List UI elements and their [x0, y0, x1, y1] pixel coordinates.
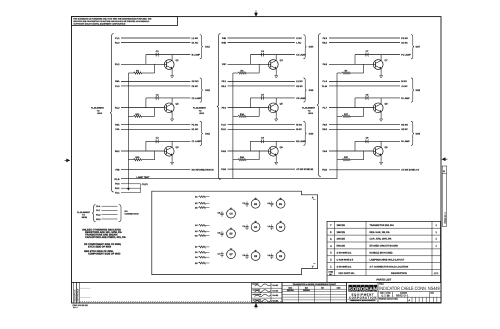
- ground: [171, 160, 173, 162]
- wire resistor to base: [363, 64, 365, 73]
- brace group DS2: [200, 78, 203, 102]
- svg-text:158C2N: 158C2N: [337, 224, 346, 227]
- wire lamp N LAMP: [355, 140, 400, 142]
- resistor R14: [233, 115, 238, 117]
- svg-text:NO.: NO.: [329, 273, 333, 276]
- svg-text:TO: TO: [82, 214, 85, 217]
- svg-text:R6A: R6A: [115, 80, 120, 83]
- wire lamp P1 LAMP: [355, 54, 400, 56]
- ground: [380, 73, 382, 75]
- svg-text:DRG 100-1M 4M: DRG 100-1M 4M: [73, 304, 88, 307]
- svg-text:J1 NC: J1 NC: [401, 85, 408, 88]
- svg-text:A-09-4945-2-1: A-09-4945-2-1: [337, 252, 353, 255]
- wire base feed: [354, 98, 356, 108]
- svg-text:5-4-61: 5-4-61: [273, 284, 280, 287]
- margin block left: [73, 282, 76, 303]
- indicator lamp DS6 (E6): [276, 223, 285, 232]
- svg-text:R1.B: R1.B: [115, 178, 120, 181]
- wire base feed: [249, 55, 251, 65]
- indicator lamp DS3 (B1): [276, 199, 285, 208]
- wire lamp C4 LAMP: [250, 97, 295, 99]
- svg-text:2N1304: 2N1304: [303, 289, 311, 292]
- wire resistor to base: [258, 64, 260, 73]
- wire collector: [380, 98, 382, 104]
- svg-text:C1 LAMP: C1 LAMP: [192, 140, 202, 143]
- connector brace column 3: [317, 34, 321, 177]
- capacitor C6: [260, 140, 262, 144]
- wire emitter: [171, 69, 173, 74]
- wire FL.M to J1 NC: [329, 85, 400, 87]
- transistor Q2: [164, 103, 174, 113]
- brace group DS6: [303, 121, 306, 145]
- wire lamp C3 LAMP: [250, 54, 295, 56]
- svg-text:C2,F1: C2,F1: [142, 183, 149, 186]
- capacitor C7: [221, 252, 223, 254]
- svg-text:FL.8: FL.8: [323, 80, 328, 83]
- wire R8.3 to S1 NC: [329, 42, 400, 44]
- svg-text:S2 NC: S2 NC: [401, 128, 408, 131]
- svg-text:F8.1: F8.1: [222, 80, 227, 83]
- wire F1.H to M NO: [228, 124, 295, 126]
- resistor R13: [128, 115, 133, 117]
- leader line: [80, 297, 91, 299]
- wire emitter: [380, 112, 382, 117]
- wire resistor to base: [258, 151, 260, 160]
- wire F4B to K NO: [228, 37, 295, 39]
- svg-text:R8.2: R8.2: [115, 150, 120, 153]
- bus wire column 1: [127, 73, 129, 184]
- svg-text:B NO: B NO: [401, 80, 407, 83]
- capacitor C6: [246, 254, 248, 256]
- title block: [347, 282, 441, 302]
- svg-text:WIRE: WIRE: [82, 216, 88, 219]
- svg-text:C-A09-4945-2-5: C-A09-4945-2-5: [337, 258, 354, 261]
- wire F1.0 to F2 NC: [121, 85, 190, 87]
- svg-text:5-4-61: 5-4-61: [273, 290, 280, 293]
- svg-text:DESCRIPTION: DESCRIPTION: [391, 272, 407, 275]
- svg-text:F1.7: F1.7: [323, 107, 328, 110]
- resistor R3: [128, 72, 133, 74]
- svg-text:F1.0: F1.0: [115, 85, 120, 88]
- wire collector: [171, 141, 173, 147]
- svg-text:ETCHED CIRCUIT BOARD: ETCHED CIRCUIT BOARD: [370, 245, 399, 248]
- bus wire column 3: [336, 73, 338, 178]
- svg-text:F4B: F4B: [222, 37, 227, 40]
- notice box: [72, 17, 178, 26]
- connector brace no-connection: [92, 205, 95, 222]
- capacitor C2: [155, 96, 157, 100]
- svg-text:F1.H: F1.H: [221, 124, 226, 127]
- svg-text:V: V: [312, 265, 314, 268]
- svg-text:P1 LAMP: P1 LAMP: [401, 54, 411, 57]
- capacitor L4: [271, 225, 273, 227]
- svg-text:TO: TO: [199, 109, 202, 112]
- svg-text:5-4-61: 5-4-61: [273, 294, 280, 297]
- svg-text:AT SW ZONE B2: AT SW ZONE B2: [296, 168, 314, 171]
- svg-text:F2.1: F2.1: [115, 192, 120, 195]
- ground: [171, 73, 173, 75]
- wire collector: [380, 55, 382, 61]
- svg-text:DS8: DS8: [416, 89, 421, 92]
- svg-text:R1.2: R1.2: [115, 63, 120, 66]
- indicator lamp DS9 (E9): [276, 252, 285, 261]
- transistor Q5: [268, 103, 278, 113]
- svg-text:A-09-4945-2-1: A-09-4945-2-1: [337, 265, 353, 268]
- svg-text:M NO: M NO: [296, 124, 302, 127]
- svg-text:S1 NC: S1 NC: [401, 42, 408, 45]
- centering mark bottom: [255, 304, 258, 309]
- svg-text:AT SW ZONE A-5: AT SW ZONE A-5: [401, 169, 419, 172]
- svg-text:K NO: K NO: [296, 37, 302, 40]
- svg-text:F2 NC: F2 NC: [192, 85, 199, 88]
- wire R1B lamp test: [121, 177, 337, 179]
- ground: [275, 160, 277, 162]
- transistor Q9: [373, 146, 383, 156]
- wire emitter: [275, 155, 277, 160]
- capacitor C5: [260, 96, 262, 100]
- capacitor C9: [365, 140, 367, 144]
- wire lamp C2 LAMP: [146, 97, 190, 99]
- wire resistor to base: [363, 151, 365, 160]
- centering mark right: [442, 158, 447, 161]
- svg-text:L2 NO: L2 NO: [296, 80, 303, 83]
- size code number row: [384, 292, 386, 298]
- svg-text:F2.B: F2.B: [221, 168, 226, 171]
- svg-text:R1.2: R1.2: [115, 107, 120, 110]
- transistor Q7: [373, 60, 383, 70]
- svg-text:DS5: DS5: [309, 89, 314, 92]
- capacitor C8: [221, 211, 223, 213]
- wire R6A to G2 NO: [121, 80, 190, 82]
- svg-text:R4.1: R4.1: [115, 187, 120, 190]
- svg-text:F8.B: F8.B: [221, 150, 226, 153]
- wire base feed: [249, 141, 251, 151]
- wire F4A to H1 NC: [121, 128, 190, 130]
- wire collector: [171, 98, 173, 104]
- wire base feed: [354, 141, 356, 151]
- svg-text:P2 NO: P2 NO: [401, 37, 408, 40]
- svg-text:F8.3: F8.3: [323, 37, 328, 40]
- capacitor C8: [365, 96, 367, 100]
- svg-text:2N1304: 2N1304: [287, 289, 295, 292]
- wire base feed: [145, 55, 147, 65]
- resistor R17: [337, 115, 342, 117]
- transistor Q6: [268, 146, 278, 156]
- resistor R24: [233, 159, 238, 161]
- svg-text:RES. 5.6K, 1W, 5%: RES. 5.6K, 1W, 5%: [370, 231, 390, 234]
- svg-text:LAMP TEST: LAMP TEST: [137, 176, 151, 179]
- wire collector: [171, 55, 173, 61]
- capacitor C4: [246, 225, 248, 227]
- svg-text:MICROFILM: MICROFILM: [73, 289, 76, 301]
- svg-text:R1.H: R1.H: [221, 128, 226, 131]
- wire FL.8 to B NO: [329, 80, 400, 82]
- capacitor L6: [271, 254, 273, 256]
- wire lamp R LAMP: [355, 97, 400, 99]
- centering mark left: [65, 159, 70, 162]
- svg-text:C O R P O R A T I O N: C O R P O R A T I O N: [349, 296, 376, 299]
- svg-text:NO: NO: [125, 210, 129, 213]
- svg-text:F4A: F4A: [115, 128, 120, 131]
- wire collector: [275, 141, 277, 147]
- wire emitter: [380, 69, 382, 74]
- brace group DS8: [411, 78, 414, 102]
- svg-text:CEC: CEC: [337, 287, 342, 290]
- svg-text:TO: TO: [308, 109, 311, 112]
- svg-text:TRANSISTOR & DIODE CONVERSI: TRANSISTOR & DIODE CONVERSION CHART: [293, 283, 337, 286]
- svg-text:CONNECTION: CONNECTION: [125, 213, 139, 216]
- bottom strip rule: [72, 281, 442, 283]
- margin drawing number box: [442, 166, 446, 226]
- wire R1.H to M NC: [228, 128, 295, 130]
- brace group DS4: [303, 35, 306, 59]
- svg-text:F8F: F8F: [222, 63, 227, 66]
- wire resistor to base: [363, 108, 365, 117]
- svg-text:F1 NO: F1 NO: [192, 124, 199, 127]
- svg-text:DS3: DS3: [205, 132, 210, 135]
- svg-text:C: C: [382, 294, 384, 297]
- svg-text:C3 LAMP: C3 LAMP: [296, 54, 306, 57]
- wire lamp B1 LAMP: [250, 140, 295, 142]
- perforation ticks: [80, 301, 284, 303]
- svg-text:D1 NC: D1 NC: [192, 42, 199, 45]
- wire emitter: [171, 112, 173, 117]
- wire base feed: [249, 98, 251, 108]
- svg-text:FL.ELEMENT: FL.ELEMENT: [91, 107, 105, 110]
- parts list table: [327, 221, 441, 282]
- svg-text:A: A: [312, 197, 314, 200]
- svg-text:DS7: DS7: [416, 46, 421, 49]
- brace group DS5: [303, 78, 306, 102]
- svg-text:F5.B: F5.B: [322, 169, 327, 172]
- wire F5B no-information: [121, 169, 190, 171]
- svg-text:F8.6: F8.6: [323, 150, 328, 153]
- svg-text:R8.1: R8.1: [221, 85, 226, 88]
- wire F1.1 to L1 NO: [121, 37, 190, 39]
- wire R4A to F1 NO: [121, 124, 190, 126]
- svg-text:COMPONENT SIDE OF #553: COMPONENT SIDE OF #553: [88, 253, 121, 256]
- wire emitter: [171, 155, 173, 160]
- svg-text:R LAMP: R LAMP: [401, 97, 410, 100]
- svg-text:TRANSISTOR 2N1 304: TRANSISTOR 2N1 304: [370, 224, 395, 227]
- capacitor C3: [155, 140, 157, 144]
- wire collector: [275, 98, 277, 104]
- wire emitter: [275, 69, 277, 74]
- svg-text:CEC: CEC: [288, 287, 293, 290]
- wire R4B to L NC: [228, 42, 295, 44]
- capacitor C1: [155, 53, 157, 57]
- svg-text:CEC PART NO.: CEC PART NO.: [339, 272, 356, 275]
- approvals block: [252, 282, 282, 302]
- svg-text:QTY.: QTY.: [434, 272, 439, 275]
- transistor Q1: [164, 60, 174, 70]
- svg-text:100C2N: 100C2N: [337, 238, 346, 241]
- connector brace column 2: [217, 34, 221, 180]
- brace group DS3: [200, 121, 203, 145]
- capacitor C7: [365, 53, 367, 57]
- capacitor A2: [271, 201, 273, 203]
- svg-text:INDICATOR CABLE CONN. NS449: INDICATOR CABLE CONN. NS449: [379, 286, 440, 292]
- svg-text:FL.ELEMENT: FL.ELEMENT: [77, 211, 91, 214]
- svg-text:M NC: M NC: [296, 128, 302, 131]
- svg-text:F5.8: F5.8: [115, 183, 120, 186]
- svg-text:F8.0: F8.0: [222, 107, 227, 110]
- capacitor C5: [221, 231, 223, 233]
- transistor Q8: [373, 103, 383, 113]
- wire collector: [275, 55, 277, 61]
- transistor Q3: [164, 146, 174, 156]
- svg-text:CAPACITORS ARE 27MFD, 50V, 5%: CAPACITORS ARE 27MFD, 50V, 5%: [85, 236, 126, 239]
- wire F2.1 stub: [121, 192, 141, 194]
- svg-text:R1.0: R1.0: [115, 42, 120, 45]
- svg-text:B1 LAMP: B1 LAMP: [296, 140, 306, 143]
- wire resistor to base: [154, 108, 156, 117]
- capacitor C4: [260, 53, 262, 57]
- border frame: [72, 17, 442, 303]
- connector brace column 1: [110, 34, 114, 192]
- ground: [171, 117, 173, 119]
- wire R1.0 to D1 NC: [121, 42, 190, 44]
- svg-text:5-4-61: 5-4-61: [273, 300, 280, 303]
- wire lamp C1 LAMP: [146, 140, 190, 142]
- leader line: [80, 287, 91, 289]
- svg-text:CAP. .47M, 100V, 5%: CAP. .47M, 100V, 5%: [370, 238, 392, 241]
- wire R8.1 to K2 NC: [228, 85, 295, 87]
- wire F5.8 stub: [121, 183, 141, 185]
- svg-text:PARTS LIST: PARTS LIST: [376, 279, 391, 282]
- wire F8.3 to P2 NO: [329, 37, 400, 39]
- ground: [380, 160, 382, 162]
- svg-text:DS9: DS9: [416, 132, 421, 135]
- svg-text:PRINTED CIRCUIT REV.: PRINTED CIRCUIT REV.: [379, 298, 399, 301]
- svg-text:L1 NO: L1 NO: [192, 37, 199, 40]
- svg-text:HANDLE (IN HOUSE): HANDLE (IN HOUSE): [370, 252, 393, 255]
- svg-text:TO: TO: [97, 109, 100, 112]
- svg-text:A-7 CONNECTOR HOLD LOCATION: A-7 CONNECTOR HOLD LOCATION: [370, 265, 409, 268]
- svg-text:FL.ELEMENT: FL.ELEMENT: [193, 107, 207, 110]
- svg-text:DS4: DS4: [309, 46, 314, 49]
- svg-text:FL.ELEMENT: FL.ELEMENT: [302, 107, 316, 110]
- svg-text:N: N: [373, 287, 377, 293]
- svg-text:F5B: F5B: [115, 169, 120, 172]
- svg-text:F1.1: F1.1: [115, 37, 120, 40]
- indicator lamp DS4 (E5): [227, 229, 236, 238]
- arrow to zone C2,F1: [127, 184, 129, 188]
- wire lamp B LAMP: [146, 54, 190, 56]
- wire emitter: [275, 112, 277, 117]
- bus wire column 2: [232, 73, 234, 178]
- svg-text:DS1: DS1: [205, 46, 210, 49]
- svg-text:R2 NO: R2 NO: [401, 124, 408, 127]
- transistor & diode conversion chart: [282, 282, 347, 302]
- centering mark top: [255, 11, 258, 17]
- brace group DS7: [411, 35, 414, 59]
- wire emitter: [380, 155, 382, 160]
- indicator lamp DS2 (B3): [251, 199, 260, 208]
- transistor Q4: [268, 60, 278, 70]
- ground: [275, 117, 277, 119]
- wire base feed: [145, 98, 147, 108]
- svg-text:B LAMP: B LAMP: [192, 54, 201, 57]
- svg-text:G2 NO: G2 NO: [192, 80, 199, 83]
- resistor R27: [337, 159, 342, 161]
- wire resistor to base: [154, 151, 156, 160]
- wire F8.5 to R2 NO: [329, 124, 400, 126]
- svg-text:COPYRIGHT 1961 BY DIGITAL EQUI: COPYRIGHT 1961 BY DIGITAL EQUIPMENT CORP…: [73, 22, 126, 25]
- wire R8.5 to S2 NC: [329, 128, 400, 130]
- svg-text:DS6: DS6: [309, 132, 314, 135]
- wire resistor to base: [154, 64, 156, 73]
- svg-text:LAMP/MACHINE HOLD LAYOUT: LAMP/MACHINE HOLD LAYOUT: [370, 258, 405, 261]
- svg-text:158C2N: 158C2N: [337, 231, 346, 234]
- svg-text:N LAMP: N LAMP: [401, 140, 410, 143]
- svg-text:R4A: R4A: [115, 124, 120, 127]
- SOROBAN logo: [348, 285, 352, 292]
- ground: [380, 117, 382, 119]
- wire base feed: [145, 141, 147, 151]
- capacitor C1: [246, 201, 248, 203]
- svg-text:C2 LAMP: C2 LAMP: [192, 97, 202, 100]
- wire collector: [380, 141, 382, 147]
- svg-text:REFERENCE: REFERENCE: [77, 288, 80, 301]
- brace group DS9: [411, 121, 414, 145]
- resistor R4: [233, 72, 238, 74]
- svg-text:NO INFORMATION BI: NO INFORMATION BI: [192, 169, 214, 172]
- wire F5.B zone: [329, 169, 400, 171]
- indicator lamp DS1 (C8): [227, 209, 236, 218]
- svg-text:R8.3: R8.3: [322, 42, 327, 45]
- indicator lamp DS8 (E8): [251, 252, 260, 261]
- indicator lamp DS7 (Q7): [227, 250, 236, 259]
- svg-text:ETCH SIDE OF #554: ETCH SIDE OF #554: [88, 245, 112, 248]
- svg-text:8992-D-1: 8992-D-1: [444, 212, 447, 224]
- resistor R7: [337, 72, 342, 74]
- ground: [275, 73, 277, 75]
- wire F8.1 to L2 NO: [228, 80, 295, 82]
- wire F2.B zone: [228, 168, 296, 170]
- indicator lamp DS5 (E4): [251, 223, 260, 232]
- svg-text:F8.5: F8.5: [323, 124, 328, 127]
- svg-text:H1 NC: H1 NC: [192, 128, 199, 131]
- svg-text:R8.5: R8.5: [322, 128, 327, 131]
- wire resistor to base: [258, 108, 260, 117]
- svg-text:K2 NC: K2 NC: [296, 85, 303, 88]
- svg-text:F8.8: F8.8: [323, 63, 328, 66]
- svg-text:L NC: L NC: [296, 42, 301, 45]
- svg-text:R4B: R4B: [222, 42, 227, 45]
- wire R4.1 stub: [121, 187, 141, 189]
- brace group DS1: [200, 35, 203, 59]
- wire base feed: [354, 55, 356, 65]
- lamp layout box outline: [152, 191, 318, 274]
- svg-text:500C2N: 500C2N: [337, 245, 346, 248]
- wire stub join: [140, 184, 142, 193]
- resistor R23: [128, 159, 133, 161]
- svg-text:C4 LAMP: C4 LAMP: [296, 97, 306, 100]
- svg-text:FL.M: FL.M: [322, 85, 327, 88]
- svg-text:DS2: DS2: [205, 89, 210, 92]
